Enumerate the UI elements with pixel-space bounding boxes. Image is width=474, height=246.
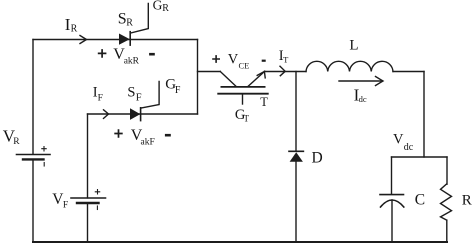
battery VR: [17, 147, 51, 167]
svg-text:akR: akR: [124, 56, 140, 66]
svg-text:F: F: [98, 94, 103, 104]
wire left vertical lower (VR battery to bottom rail): [32, 159, 34, 242]
label SR: [118, 11, 133, 29]
diode D branch wire lower: [295, 162, 297, 242]
svg-text:G: G: [153, 0, 163, 13]
battery VF: [71, 190, 106, 210]
svg-text:R: R: [13, 137, 20, 147]
node arrow IT current: [280, 66, 285, 76]
capacitor C branch wire upper: [391, 157, 393, 194]
wire SF branch horizontal: [88, 113, 198, 115]
label IT: [279, 48, 289, 64]
wire right-mid vertical (top rail to SF branch): [197, 40, 199, 115]
label T: [260, 95, 268, 109]
svg-text:F: F: [63, 201, 68, 211]
wire top rail from left corner to right mid vertical: [33, 39, 198, 41]
label R: [462, 193, 472, 209]
svg-text:dc: dc: [404, 142, 414, 153]
svg-text:V: V: [393, 131, 404, 147]
svg-text:L: L: [349, 38, 358, 54]
svg-text:T: T: [244, 114, 250, 124]
svg-text:F: F: [175, 85, 181, 96]
capacitor C: [380, 195, 404, 207]
thyristor SF: [130, 82, 159, 121]
svg-text:S: S: [127, 85, 135, 101]
label VF: [52, 191, 68, 210]
svg-text:R: R: [71, 24, 78, 35]
resistor R: [441, 184, 452, 220]
wire bottom rail: [33, 241, 447, 243]
wire right vertical (corner down to load rail): [423, 72, 425, 158]
wire emitter to diode junction: [265, 71, 306, 73]
svg-text:R: R: [462, 193, 472, 209]
svg-text:R: R: [126, 17, 133, 28]
thyristor SR: [119, 4, 148, 46]
label SF: [127, 85, 141, 104]
svg-text:D: D: [312, 149, 323, 166]
svg-text:R: R: [162, 3, 169, 14]
label GF: [165, 76, 181, 96]
svg-text:dc: dc: [359, 94, 367, 104]
resistor R branch wire lower: [446, 220, 448, 242]
svg-text:T: T: [283, 54, 289, 64]
label GT: [235, 107, 250, 124]
label D: [312, 149, 323, 166]
label L: [349, 38, 358, 54]
label IR: [65, 15, 78, 35]
inductor L: [306, 61, 393, 71]
svg-text:V: V: [228, 51, 239, 67]
label GR: [153, 0, 170, 14]
svg-text:C: C: [415, 192, 425, 209]
label Idc: [354, 86, 367, 105]
node arrow IR current: [80, 36, 87, 44]
IGBT T (transistor): [198, 71, 268, 104]
label +VakF-: [114, 127, 171, 147]
wire left vertical upper (top rail down to VR battery): [32, 40, 34, 155]
label IF: [93, 85, 103, 104]
diode D: [289, 151, 303, 162]
label +VakR-: [98, 46, 155, 66]
label +VCE-: [212, 51, 266, 70]
svg-text:akF: akF: [141, 138, 155, 148]
svg-text:F: F: [136, 92, 142, 103]
svg-text:T: T: [260, 95, 268, 109]
wire load top rail: [392, 156, 448, 158]
resistor R branch wire upper: [446, 157, 448, 184]
wire VF vertical upper (SF branch to VF battery): [87, 114, 89, 198]
label Vdc: [393, 131, 414, 153]
label C: [415, 192, 425, 209]
wire inductor to top-right corner: [393, 71, 424, 73]
svg-text:CE: CE: [239, 61, 250, 71]
node arrow IF current: [104, 110, 109, 119]
diode D branch wire upper: [295, 72, 297, 152]
wire VF vertical lower (VF battery to bottom rail): [87, 203, 89, 242]
label VR: [3, 127, 21, 148]
node arrow Idc current: [339, 77, 383, 86]
capacitor C branch wire lower: [391, 200, 393, 242]
